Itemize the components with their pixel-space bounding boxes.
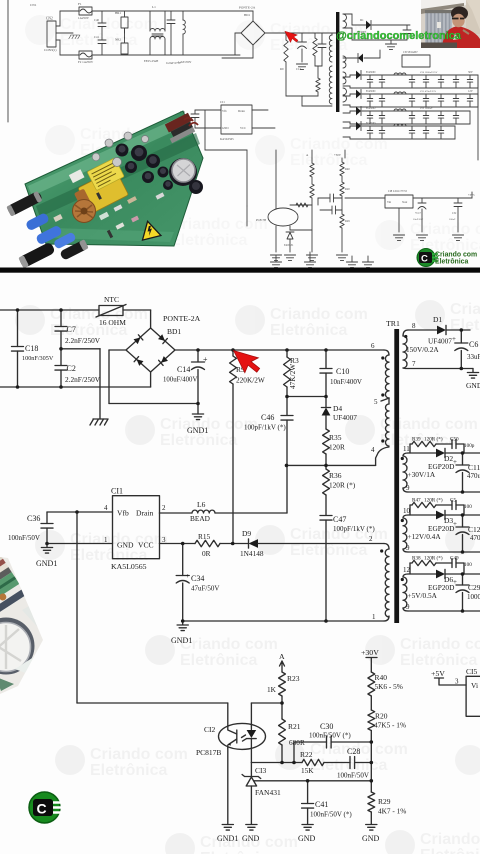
svg-text:3: 3	[162, 536, 166, 544]
svg-text:1K: 1K	[267, 685, 277, 694]
svg-text:C47: C47	[333, 515, 346, 524]
svg-text:+: +	[453, 578, 457, 586]
svg-text:+5V/0.5A: +5V/0.5A	[408, 591, 438, 600]
svg-text:120R (*): 120R (*)	[424, 555, 443, 562]
svg-text:120R (*): 120R (*)	[424, 497, 443, 504]
svg-text:BD1: BD1	[167, 327, 181, 336]
svg-text:C30: C30	[320, 722, 333, 731]
svg-text:100: 100	[464, 504, 472, 510]
svg-text:Criando com: Criando com	[180, 636, 278, 653]
svg-text:PONTE-2A: PONTE-2A	[239, 6, 256, 10]
svg-text:FAN431: FAN431	[284, 244, 294, 247]
svg-text:3: 3	[455, 678, 459, 686]
svg-text:10nF/400V: 10nF/400V	[330, 378, 362, 386]
svg-text:R36: R36	[329, 471, 342, 480]
svg-text:CN1: CN1	[30, 3, 37, 7]
svg-text:C50: C50	[450, 437, 459, 443]
svg-text:+: +	[453, 458, 457, 466]
svg-text:47K5 - 1%: 47K5 - 1%	[374, 721, 406, 730]
svg-text:+C17: +C17	[415, 212, 421, 215]
svg-text:1N4148: 1N4148	[240, 549, 264, 558]
svg-text:CON3(1): CON3(1)	[44, 48, 56, 52]
svg-text:12: 12	[403, 566, 411, 574]
svg-text:2.2nF/250V: 2.2nF/250V	[65, 375, 101, 384]
svg-text:100nF/305V: 100nF/305V	[22, 355, 54, 362]
svg-text:8: 8	[412, 322, 416, 330]
svg-text:CI1: CI1	[220, 100, 225, 104]
svg-text:UF4007: UF4007	[333, 413, 357, 422]
svg-text:11: 11	[403, 445, 410, 453]
svg-text:C52: C52	[452, 212, 457, 215]
svg-text:GND1: GND1	[36, 559, 57, 568]
svg-text:C28: C28	[347, 747, 360, 756]
svg-text:C12: C12	[468, 525, 480, 534]
svg-text:@criandocomeletronica: @criandocomeletronica	[336, 30, 462, 42]
svg-text:FAN431: FAN431	[255, 788, 281, 797]
svg-text:KA5L0565: KA5L0565	[111, 562, 147, 571]
svg-text:1: 1	[372, 613, 376, 621]
svg-text:C36: C36	[27, 514, 40, 523]
svg-text:100nF/50V (*): 100nF/50V (*)	[310, 811, 352, 819]
svg-text:Eletrônica: Eletrônica	[450, 317, 480, 334]
svg-text:C49: C49	[450, 556, 459, 562]
svg-text:CI1: CI1	[111, 487, 123, 496]
svg-text:D9: D9	[242, 529, 251, 538]
svg-text:Criando com: Criando com	[60, 16, 158, 33]
svg-text:9: 9	[406, 544, 410, 552]
svg-text:Vout: Vout	[402, 201, 407, 204]
svg-text:Criando com: Criando com	[90, 746, 188, 763]
svg-text:NTC: NTC	[104, 295, 119, 304]
svg-text:R35: R35	[329, 433, 342, 442]
svg-text:Drain: Drain	[136, 509, 153, 518]
svg-text:EGP20D: EGP20D	[366, 90, 375, 93]
svg-text:Criando com: Criando com	[170, 216, 268, 233]
svg-text:5K6 - 5%: 5K6 - 5%	[375, 682, 403, 691]
svg-text:R23: R23	[287, 674, 300, 683]
svg-text:BD1: BD1	[244, 13, 250, 17]
svg-text:+12V/0.4A: +12V/0.4A	[408, 532, 442, 541]
svg-text:2.2nF/250V: 2.2nF/250V	[65, 336, 101, 345]
svg-text:Drain: Drain	[238, 109, 245, 113]
svg-text:1: 1	[104, 536, 108, 544]
svg-text:470: 470	[470, 534, 480, 542]
svg-text:R3: R3	[290, 356, 299, 365]
svg-text:Eletrônica: Eletrônica	[290, 542, 367, 559]
svg-text:Eletrônica: Eletrônica	[200, 850, 277, 854]
svg-text:PC817B: PC817B	[196, 748, 221, 757]
svg-text:GND: GND	[242, 834, 260, 843]
svg-text:GND1: GND1	[217, 834, 238, 843]
svg-text:F1: F1	[78, 2, 82, 6]
svg-text:Criando com: Criando com	[400, 636, 480, 653]
svg-text:Eletrônica: Eletrônica	[180, 652, 257, 669]
svg-text:EE25-25uH: EE25-25uH	[144, 59, 159, 63]
svg-text:C10: C10	[336, 367, 349, 376]
svg-text:Vfb: Vfb	[117, 509, 129, 518]
svg-text:100nF/50V (*): 100nF/50V (*)	[309, 732, 351, 740]
svg-text:2: 2	[162, 504, 166, 512]
svg-text:1.2uF/250V: 1.2uF/250V	[178, 61, 191, 64]
svg-text:+3V3: +3V3	[468, 194, 475, 197]
svg-text:120R (*): 120R (*)	[424, 436, 443, 443]
svg-text:CI5: CI5	[466, 667, 478, 676]
svg-text:R38: R38	[412, 556, 421, 562]
svg-text:Criando com: Criando com	[270, 306, 368, 323]
svg-text:NR2: NR2	[115, 38, 121, 42]
svg-text:33uF: 33uF	[467, 353, 480, 361]
svg-text:R40: R40	[345, 168, 350, 171]
svg-text:GND1: GND1	[187, 426, 208, 435]
svg-text:+: +	[452, 335, 456, 343]
svg-text:15K: 15K	[301, 766, 314, 775]
svg-text:+: +	[203, 355, 208, 364]
svg-text:L1: L1	[152, 5, 156, 9]
svg-text:47uF/50V: 47uF/50V	[191, 585, 219, 593]
svg-text:Eletrônica: Eletrônica	[290, 152, 367, 169]
svg-text:4K7 - 1%: 4K7 - 1%	[378, 807, 406, 816]
svg-text:7: 7	[412, 360, 416, 368]
svg-text:HR1: HR1	[115, 11, 121, 15]
svg-text:12V: 12V	[468, 90, 473, 93]
svg-text:+30V: +30V	[334, 153, 342, 157]
svg-text:GND: GND	[362, 834, 380, 843]
svg-text:C: C	[421, 254, 428, 265]
svg-text:100pF/1kV (*): 100pF/1kV (*)	[244, 424, 286, 432]
svg-text:+: +	[186, 571, 190, 580]
svg-text:C41: C41	[315, 800, 328, 809]
svg-text:C: C	[37, 801, 47, 817]
svg-text:+30V/1A: +30V/1A	[408, 470, 436, 479]
svg-text:0R: 0R	[202, 549, 211, 558]
svg-text:100p: 100p	[464, 443, 475, 449]
svg-text:4: 4	[104, 504, 108, 512]
svg-text:47K/2W: 47K/2W	[288, 364, 297, 389]
svg-text:120R (*): 120R (*)	[329, 481, 356, 490]
svg-text:KA5L0565: KA5L0565	[220, 137, 234, 141]
svg-text:+5V: +5V	[431, 669, 445, 678]
svg-text:10: 10	[403, 507, 411, 515]
svg-text:+: +	[453, 520, 457, 528]
svg-text:R29: R29	[345, 220, 350, 223]
svg-text:C7: C7	[67, 325, 76, 334]
svg-text:PONTE-2A: PONTE-2A	[163, 314, 201, 323]
svg-text:R21: R21	[288, 722, 301, 731]
svg-text:C46: C46	[261, 413, 274, 422]
svg-text:D1: D1	[433, 315, 442, 324]
svg-text:9: 9	[406, 603, 410, 611]
svg-text:9: 9	[406, 484, 410, 492]
svg-text:R47: R47	[412, 498, 421, 504]
svg-text:GND1: GND1	[171, 636, 192, 645]
svg-text:C5: C5	[450, 498, 456, 504]
svg-text:C11: C11	[468, 463, 480, 472]
svg-text:C41: C41	[94, 35, 100, 39]
svg-text:C40: C40	[94, 18, 100, 22]
svg-text:R20: R20	[345, 188, 350, 191]
svg-text:Vi: Vi	[471, 681, 478, 690]
svg-text:VCC: VCC	[138, 541, 154, 550]
svg-text:C2: C2	[67, 364, 76, 373]
svg-text:Eletrônica: Eletrônica	[420, 847, 480, 854]
svg-text:D1: D1	[360, 18, 364, 22]
svg-text:Vfb: Vfb	[222, 109, 227, 113]
svg-text:Criando com: Criando com	[435, 252, 477, 259]
svg-text:2: 2	[369, 535, 373, 543]
svg-text:Criando com: Criando com	[420, 831, 480, 848]
svg-text:6: 6	[371, 342, 375, 350]
svg-text:C14: C14	[177, 365, 190, 374]
svg-text:A: A	[279, 652, 285, 661]
svg-text:D4: D4	[333, 404, 342, 413]
svg-text:PC817B: PC817B	[256, 218, 266, 222]
svg-text:Eletrônica: Eletrônica	[90, 762, 167, 779]
svg-text:VCC: VCC	[240, 126, 246, 130]
svg-text:TR1: TR1	[386, 319, 400, 328]
svg-text:120R: 120R	[329, 443, 345, 452]
svg-text:R20: R20	[375, 712, 388, 721]
svg-text:R15: R15	[198, 532, 211, 541]
svg-text:R29: R29	[378, 797, 391, 806]
svg-text:CI2: CI2	[204, 725, 216, 734]
svg-text:100nF: 100nF	[449, 218, 456, 221]
svg-text:470u: 470u	[467, 472, 480, 480]
svg-text:C34: C34	[191, 574, 204, 583]
svg-text:220K/2W: 220K/2W	[236, 376, 265, 385]
svg-text:EGP20D: EGP20D	[366, 122, 375, 125]
svg-text:100uF/400V: 100uF/400V	[163, 377, 197, 384]
svg-text:C22 1000uF: C22 1000uF	[420, 107, 433, 110]
svg-text:C21 470uF/25V: C21 470uF/25V	[420, 90, 436, 93]
svg-text:GND: GND	[466, 381, 480, 390]
svg-text:150V/0.2A: 150V/0.2A	[406, 345, 439, 354]
svg-text:Eletrônica: Eletrônica	[270, 322, 347, 339]
svg-text:30V: 30V	[468, 71, 473, 74]
svg-text:Criando com: Criando com	[450, 301, 480, 318]
svg-text:L6: L6	[197, 500, 206, 509]
svg-text:R9: R9	[280, 67, 284, 71]
svg-text:5: 5	[374, 398, 378, 406]
svg-text:1A250V: 1A250V	[78, 16, 90, 20]
svg-text:CN2: CN2	[46, 17, 53, 21]
svg-text:EGP20D: EGP20D	[366, 107, 375, 110]
svg-text:F2 1A250V: F2 1A250V	[78, 60, 94, 64]
svg-text:CI3: CI3	[255, 766, 267, 775]
svg-text:100nF/50V: 100nF/50V	[337, 772, 369, 780]
svg-text:R22: R22	[300, 750, 313, 759]
svg-text:C20 1000uF/25V: C20 1000uF/25V	[420, 71, 438, 74]
svg-text:CI5 SE2A067: CI5 SE2A067	[403, 51, 418, 54]
svg-text:1000: 1000	[467, 593, 480, 601]
svg-text:R40: R40	[375, 673, 388, 682]
svg-text:Eletrônica: Eletrônica	[435, 259, 468, 266]
svg-text:C14: C14	[296, 67, 302, 71]
svg-text:100nF/50V: 100nF/50V	[8, 534, 40, 542]
svg-text:R39: R39	[412, 437, 421, 443]
svg-text:Eletrônica: Eletrônica	[170, 232, 247, 249]
svg-text:C6: C6	[469, 340, 478, 349]
svg-text:BEAD: BEAD	[190, 514, 210, 523]
svg-text:10uF/50V: 10uF/50V	[413, 218, 423, 221]
svg-text:+30V: +30V	[361, 648, 379, 657]
svg-text:Vin: Vin	[387, 201, 392, 204]
svg-text:16 OHM: 16 OHM	[99, 318, 126, 327]
svg-text:CI8 LD1117V33: CI8 LD1117V33	[388, 190, 407, 193]
svg-text:GND: GND	[117, 541, 134, 550]
svg-text:GND: GND	[298, 834, 316, 843]
svg-text:4: 4	[371, 446, 375, 454]
svg-text:100pF/1kV (*): 100pF/1kV (*)	[333, 525, 375, 533]
svg-text:100: 100	[464, 562, 472, 568]
svg-text:C29: C29	[468, 583, 480, 592]
svg-text:GND: GND	[222, 126, 229, 130]
svg-text:EGP20D: EGP20D	[366, 71, 375, 74]
svg-text:C18: C18	[25, 344, 38, 353]
